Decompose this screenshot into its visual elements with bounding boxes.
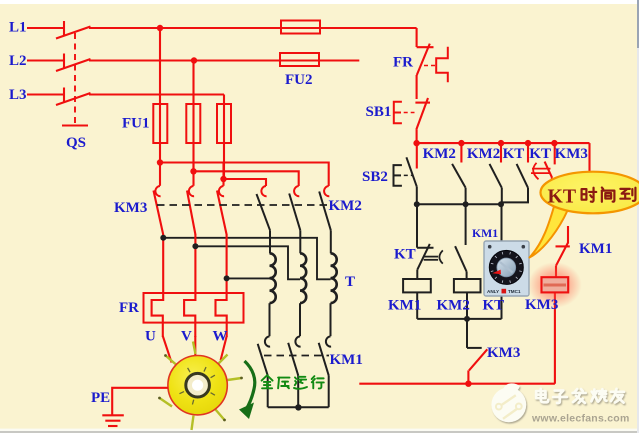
svg-text:KT: KT bbox=[503, 146, 525, 162]
svg-text:KT: KT bbox=[394, 247, 416, 263]
svg-text:L3: L3 bbox=[9, 87, 27, 103]
svg-text:KM2: KM2 bbox=[437, 298, 470, 314]
svg-text:FU2: FU2 bbox=[285, 72, 313, 88]
svg-text:KM2: KM2 bbox=[467, 146, 500, 162]
svg-text:FR: FR bbox=[119, 300, 139, 316]
svg-text:U: U bbox=[145, 329, 156, 345]
svg-text:L1: L1 bbox=[9, 20, 27, 36]
svg-text:KM3: KM3 bbox=[114, 200, 147, 216]
svg-text:KM3: KM3 bbox=[555, 146, 588, 162]
svg-text:W: W bbox=[213, 329, 228, 345]
svg-text:V: V bbox=[181, 329, 192, 345]
svg-text:KM2: KM2 bbox=[329, 198, 362, 214]
svg-text:KT: KT bbox=[529, 146, 551, 162]
svg-text:KM1: KM1 bbox=[388, 298, 421, 314]
svg-text:KM2: KM2 bbox=[423, 146, 456, 162]
svg-text:ANLY: ANLY bbox=[487, 289, 499, 294]
svg-text:KT: KT bbox=[483, 298, 505, 314]
svg-text:KT: KT bbox=[548, 186, 577, 208]
svg-text:TMC1: TMC1 bbox=[508, 289, 521, 294]
svg-text:KM3: KM3 bbox=[525, 297, 558, 313]
svg-text:SB2: SB2 bbox=[362, 169, 388, 185]
svg-text:www.elecfans.com: www.elecfans.com bbox=[531, 413, 630, 425]
svg-text:KM1: KM1 bbox=[579, 241, 612, 257]
svg-text:SB1: SB1 bbox=[366, 104, 392, 120]
svg-text:KM1: KM1 bbox=[472, 226, 498, 240]
svg-text:FR: FR bbox=[393, 55, 413, 71]
svg-text:QS: QS bbox=[66, 135, 86, 151]
svg-text:FU1: FU1 bbox=[122, 116, 150, 132]
svg-text:KM3: KM3 bbox=[487, 345, 520, 361]
svg-text:PE: PE bbox=[91, 390, 110, 406]
svg-text:KM1: KM1 bbox=[330, 352, 363, 368]
svg-text:T: T bbox=[345, 274, 355, 290]
svg-text:L2: L2 bbox=[9, 53, 27, 69]
